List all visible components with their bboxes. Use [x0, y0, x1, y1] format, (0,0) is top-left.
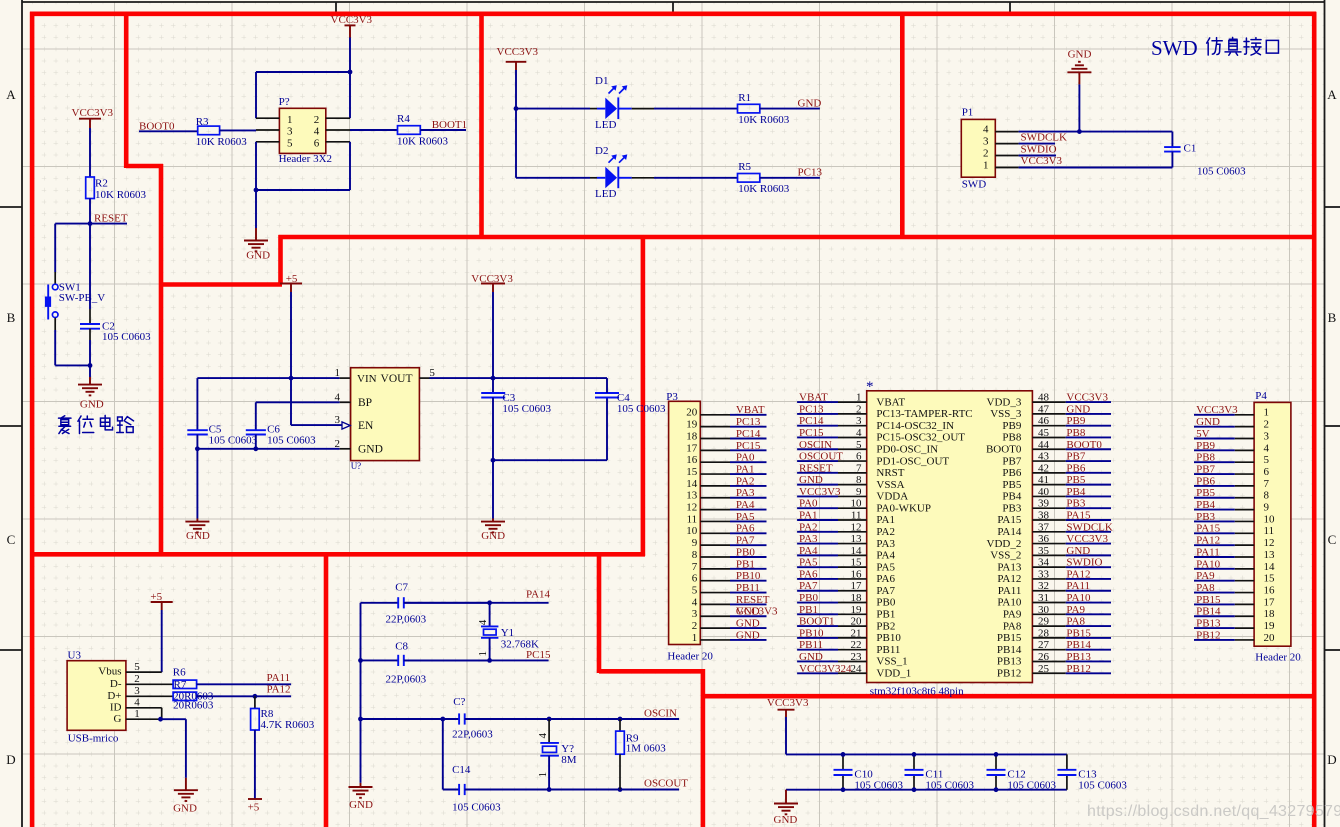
svg-text:22P,0603: 22P,0603 — [452, 729, 493, 741]
svg-text:VOUT: VOUT — [381, 373, 413, 385]
svg-text:4: 4 — [856, 427, 862, 439]
svg-text:VCC3V3: VCC3V3 — [1066, 392, 1108, 404]
svg-text:PB10: PB10 — [876, 632, 901, 644]
svg-text:*: * — [866, 379, 874, 395]
svg-text:R3: R3 — [196, 116, 209, 128]
svg-text:16: 16 — [1264, 584, 1276, 596]
svg-text:33: 33 — [1038, 568, 1050, 580]
svg-text:P1: P1 — [962, 107, 974, 119]
svg-text:22P,0603: 22P,0603 — [386, 613, 427, 625]
svg-text:30: 30 — [1038, 604, 1050, 616]
svg-text:R5: R5 — [738, 161, 751, 173]
svg-text:GND: GND — [481, 530, 505, 542]
svg-text:R1: R1 — [738, 92, 751, 104]
svg-text:2: 2 — [856, 403, 862, 415]
svg-text:PB9: PB9 — [1066, 415, 1085, 427]
svg-text:VCC3V3: VCC3V3 — [799, 486, 841, 498]
svg-text:22P,0603: 22P,0603 — [386, 673, 427, 685]
svg-text:PC13: PC13 — [798, 167, 823, 179]
svg-text:PA12: PA12 — [1066, 568, 1090, 580]
svg-text:EN: EN — [358, 420, 374, 432]
svg-text:VBAT: VBAT — [876, 396, 905, 408]
svg-text:40: 40 — [1038, 486, 1050, 498]
svg-text:14: 14 — [686, 478, 698, 490]
svg-text:27: 27 — [1038, 639, 1050, 651]
svg-text:R7: R7 — [174, 679, 187, 691]
svg-text:PB13: PB13 — [1196, 618, 1221, 630]
svg-text:PA1: PA1 — [876, 514, 895, 526]
svg-text:2: 2 — [692, 620, 698, 632]
svg-text:PA15: PA15 — [1196, 523, 1221, 535]
svg-text:A: A — [1327, 87, 1337, 102]
svg-text:10K R0603: 10K R0603 — [738, 114, 790, 126]
svg-text:47: 47 — [1038, 403, 1050, 415]
svg-text:8: 8 — [856, 474, 862, 486]
svg-text:3: 3 — [134, 685, 140, 697]
svg-text:PA0-WKUP: PA0-WKUP — [876, 502, 931, 514]
svg-text:38: 38 — [1038, 510, 1050, 522]
svg-text:PA3: PA3 — [736, 487, 755, 499]
svg-text:10K R0603: 10K R0603 — [397, 135, 449, 147]
svg-text:20: 20 — [686, 407, 698, 419]
svg-text:14: 14 — [851, 545, 863, 557]
svg-text:44: 44 — [1038, 439, 1050, 451]
svg-text:PB14: PB14 — [1066, 639, 1091, 651]
svg-text:SWDCLK: SWDCLK — [1066, 521, 1113, 533]
svg-text:PB3: PB3 — [1002, 502, 1021, 514]
svg-text:PB1: PB1 — [876, 609, 895, 621]
svg-text:VBAT: VBAT — [799, 392, 828, 404]
svg-text:P?: P? — [279, 96, 290, 108]
svg-text:PA15: PA15 — [1066, 510, 1091, 522]
svg-text:20: 20 — [1264, 632, 1276, 644]
svg-text:4: 4 — [134, 697, 140, 709]
svg-text:32: 32 — [1038, 580, 1049, 592]
svg-text:PA10: PA10 — [997, 597, 1022, 609]
svg-text:PB4: PB4 — [1196, 499, 1215, 511]
svg-text:19: 19 — [686, 419, 698, 431]
svg-text:SWDIO: SWDIO — [1021, 144, 1057, 156]
svg-text:R4: R4 — [397, 113, 410, 125]
svg-text:ID: ID — [110, 701, 122, 713]
svg-text:PC14: PC14 — [736, 428, 761, 440]
svg-text:7: 7 — [692, 561, 698, 573]
svg-text:6: 6 — [1264, 466, 1270, 478]
svg-text:VDD_2: VDD_2 — [987, 538, 1022, 550]
svg-text:20R0603: 20R0603 — [173, 699, 214, 711]
svg-text:35: 35 — [1038, 545, 1050, 557]
svg-text:GND: GND — [1066, 403, 1090, 415]
svg-text:12: 12 — [1264, 537, 1275, 549]
svg-text:5: 5 — [856, 439, 862, 451]
svg-text:SWDIO: SWDIO — [1066, 557, 1102, 569]
svg-text:1: 1 — [134, 708, 140, 720]
svg-text:PB4: PB4 — [1002, 491, 1021, 503]
svg-text:PA12: PA12 — [267, 683, 291, 695]
svg-text:D: D — [1327, 752, 1336, 767]
svg-text:PA7: PA7 — [799, 580, 818, 592]
svg-text:VDDA: VDDA — [876, 491, 908, 503]
svg-text:SWDCLK: SWDCLK — [1021, 132, 1068, 144]
svg-text:105 C0603: 105 C0603 — [502, 403, 551, 415]
svg-text:R2: R2 — [95, 178, 108, 190]
svg-text:PB6: PB6 — [1066, 462, 1085, 474]
svg-text:PA11: PA11 — [998, 585, 1022, 597]
svg-text:PC15: PC15 — [799, 427, 824, 439]
svg-text:C7: C7 — [395, 581, 408, 593]
svg-text:PA9: PA9 — [1196, 570, 1215, 582]
svg-text:C: C — [1328, 532, 1337, 547]
svg-text:2: 2 — [1264, 419, 1270, 431]
svg-text:BP: BP — [358, 397, 372, 409]
svg-text:105 C0603: 105 C0603 — [102, 331, 151, 343]
svg-text:VCC3V3: VCC3V3 — [1066, 533, 1108, 545]
svg-text:PB3: PB3 — [1066, 498, 1085, 510]
svg-text:VCC3V3: VCC3V3 — [767, 697, 809, 709]
svg-text:8: 8 — [692, 549, 698, 561]
svg-text:PB12: PB12 — [1066, 663, 1090, 675]
svg-text:105 C0603: 105 C0603 — [209, 435, 258, 447]
svg-text:34: 34 — [1038, 557, 1050, 569]
svg-text:GND: GND — [736, 629, 760, 641]
svg-text:PA0: PA0 — [799, 498, 818, 510]
svg-text:5V: 5V — [1196, 428, 1210, 440]
svg-text:105 C0603: 105 C0603 — [854, 779, 903, 791]
svg-text:GND: GND — [173, 803, 197, 815]
svg-text:45: 45 — [1038, 427, 1050, 439]
svg-text:PA10: PA10 — [1066, 592, 1091, 604]
svg-text:PB14: PB14 — [997, 644, 1022, 656]
svg-text:R6: R6 — [173, 667, 186, 679]
svg-text:VCC3V3: VCC3V3 — [1021, 155, 1063, 167]
svg-text:PA14: PA14 — [997, 526, 1022, 538]
svg-text:36: 36 — [1038, 533, 1050, 545]
svg-text:PB15: PB15 — [1196, 594, 1221, 606]
svg-text:R8: R8 — [261, 708, 274, 720]
svg-text:PA5: PA5 — [799, 557, 818, 569]
svg-text:1: 1 — [537, 772, 549, 778]
svg-text:PB10: PB10 — [799, 627, 824, 639]
svg-text:24: 24 — [851, 663, 863, 675]
svg-text:10K R0603: 10K R0603 — [95, 189, 147, 201]
svg-text:1: 1 — [287, 114, 293, 126]
svg-text:RESET: RESET — [736, 594, 770, 606]
svg-text:2: 2 — [314, 114, 320, 126]
svg-text:PD0-OSC_IN: PD0-OSC_IN — [876, 443, 938, 455]
svg-text:RESET: RESET — [94, 213, 128, 225]
svg-text:VDD_1: VDD_1 — [876, 667, 911, 679]
svg-text:PC13: PC13 — [736, 416, 761, 428]
svg-text:PB1: PB1 — [736, 558, 755, 570]
svg-text:105 C0603: 105 C0603 — [1078, 779, 1127, 791]
svg-text:B: B — [7, 310, 16, 325]
svg-text:PA4: PA4 — [799, 545, 818, 557]
svg-text:+5: +5 — [248, 802, 260, 814]
svg-text:PB8: PB8 — [1196, 452, 1215, 464]
svg-text:PB13: PB13 — [997, 656, 1022, 668]
svg-text:D1: D1 — [595, 75, 608, 87]
svg-text:3: 3 — [983, 136, 989, 148]
svg-text:PA12: PA12 — [997, 573, 1021, 585]
svg-text:OSCOUT: OSCOUT — [644, 777, 688, 789]
svg-text:10: 10 — [686, 525, 698, 537]
svg-text:C8: C8 — [395, 640, 408, 652]
svg-text:GND: GND — [349, 799, 373, 811]
svg-text:PA0: PA0 — [736, 452, 755, 464]
svg-text:PB5: PB5 — [1066, 474, 1085, 486]
svg-text:PC14-OSC32_IN: PC14-OSC32_IN — [876, 420, 954, 432]
svg-text:6: 6 — [314, 137, 320, 149]
svg-text:11: 11 — [851, 510, 862, 522]
svg-text:PB7: PB7 — [1196, 463, 1215, 475]
svg-text:PA2: PA2 — [736, 475, 755, 487]
svg-text:8M: 8M — [561, 754, 577, 766]
svg-text:OSCOUT: OSCOUT — [799, 451, 843, 463]
svg-text:28: 28 — [1038, 627, 1050, 639]
svg-text:18: 18 — [851, 592, 863, 604]
svg-text:PB11: PB11 — [736, 582, 760, 594]
svg-text:9: 9 — [856, 486, 862, 498]
svg-text:10K R0603: 10K R0603 — [196, 136, 248, 148]
svg-text:18: 18 — [1264, 608, 1276, 620]
svg-text:105 C0603: 105 C0603 — [925, 779, 974, 791]
svg-text:Vbus: Vbus — [98, 666, 121, 678]
svg-text:46: 46 — [1038, 415, 1050, 427]
svg-text:3: 3 — [692, 608, 698, 620]
svg-text:19: 19 — [1264, 620, 1276, 632]
svg-text:GND: GND — [798, 97, 822, 109]
svg-text:5: 5 — [134, 661, 140, 673]
svg-text:41: 41 — [1038, 474, 1049, 486]
svg-text:B: B — [1328, 310, 1337, 325]
svg-text:LED: LED — [595, 188, 616, 200]
svg-text:PA8: PA8 — [1066, 616, 1085, 628]
svg-text:PA6: PA6 — [799, 568, 818, 580]
svg-text:G: G — [114, 713, 122, 725]
svg-text:105 C0603: 105 C0603 — [617, 403, 666, 415]
svg-text:15: 15 — [851, 557, 863, 569]
svg-text:17: 17 — [686, 442, 698, 454]
svg-text:26: 26 — [1038, 651, 1050, 663]
svg-text:16: 16 — [851, 568, 863, 580]
svg-text:GND: GND — [186, 530, 210, 542]
svg-text:C: C — [7, 532, 16, 547]
svg-text:14: 14 — [1264, 561, 1276, 573]
svg-text:PA10: PA10 — [1196, 558, 1221, 570]
svg-text:P4: P4 — [1255, 390, 1267, 402]
svg-text:48: 48 — [1038, 392, 1050, 404]
svg-text:PA4: PA4 — [876, 550, 895, 562]
svg-text:42: 42 — [1038, 462, 1049, 474]
svg-text:15: 15 — [1264, 573, 1276, 585]
svg-text:105 C0603: 105 C0603 — [1197, 166, 1246, 178]
svg-text:U3: U3 — [68, 650, 82, 662]
svg-text:PA5: PA5 — [736, 511, 755, 523]
svg-text:SWD: SWD — [962, 178, 987, 190]
svg-text:2: 2 — [134, 673, 140, 685]
svg-text:10K R0603: 10K R0603 — [738, 183, 790, 195]
svg-text:USB-mrico: USB-mrico — [68, 732, 119, 744]
svg-text:PA13: PA13 — [997, 561, 1022, 573]
svg-text:PB7: PB7 — [1066, 451, 1085, 463]
svg-text:PB12: PB12 — [1196, 629, 1220, 641]
svg-text:BOOT1: BOOT1 — [432, 119, 467, 131]
svg-text:https://blog.csdn.net/qq_43279: https://blog.csdn.net/qq_43279579 — [1087, 803, 1340, 820]
svg-text:GND: GND — [799, 651, 823, 663]
svg-text:39: 39 — [1038, 498, 1050, 510]
svg-text:12: 12 — [851, 521, 862, 533]
svg-text:18: 18 — [686, 430, 698, 442]
svg-text:VBAT: VBAT — [736, 404, 765, 416]
svg-text:4: 4 — [1264, 442, 1270, 454]
svg-text:C4: C4 — [617, 392, 630, 404]
svg-text:GND: GND — [799, 474, 823, 486]
svg-text:PB15: PB15 — [997, 632, 1022, 644]
svg-text:105 C0603: 105 C0603 — [267, 435, 316, 447]
svg-text:GND: GND — [736, 618, 760, 630]
svg-text:PB5: PB5 — [1196, 487, 1215, 499]
svg-text:PA7: PA7 — [736, 535, 755, 547]
svg-text:PA8: PA8 — [1003, 620, 1022, 632]
svg-text:VIN: VIN — [357, 373, 377, 385]
svg-text:19: 19 — [851, 604, 863, 616]
svg-text:VDD_3: VDD_3 — [987, 396, 1022, 408]
svg-text:PB15: PB15 — [1066, 627, 1091, 639]
svg-text:PD1-OSC_OUT: PD1-OSC_OUT — [876, 455, 949, 467]
svg-text:GND: GND — [1066, 545, 1090, 557]
svg-text:PB0: PB0 — [736, 546, 755, 558]
svg-text:PA12: PA12 — [1196, 535, 1220, 547]
svg-text:GND: GND — [80, 398, 104, 410]
svg-text:8: 8 — [1264, 490, 1270, 502]
svg-text:VCC3V3: VCC3V3 — [331, 14, 373, 26]
svg-text:C1: C1 — [1184, 142, 1197, 154]
svg-text:Y1: Y1 — [501, 627, 514, 639]
svg-text:stm32f103c8t6 48pin: stm32f103c8t6 48pin — [870, 686, 964, 698]
svg-text:D2: D2 — [595, 145, 608, 157]
svg-text:6: 6 — [692, 573, 698, 585]
svg-text:12: 12 — [686, 502, 697, 514]
svg-text:PA6: PA6 — [736, 523, 755, 535]
svg-text:RESET: RESET — [799, 462, 833, 474]
svg-text:U?: U? — [351, 461, 362, 471]
svg-text:10: 10 — [1264, 513, 1276, 525]
svg-text:PB3: PB3 — [1196, 511, 1215, 523]
svg-text:BOOT0: BOOT0 — [986, 443, 1022, 455]
svg-text:PB4: PB4 — [1066, 486, 1085, 498]
svg-text:43: 43 — [1038, 451, 1050, 463]
svg-text:PB1: PB1 — [799, 604, 818, 616]
svg-text:PA11: PA11 — [1066, 580, 1090, 592]
svg-text:PB8: PB8 — [1066, 427, 1085, 439]
svg-text:SWD: SWD — [1151, 36, 1198, 60]
svg-text:PB12: PB12 — [997, 667, 1021, 679]
svg-text:VCC3V3: VCC3V3 — [72, 107, 114, 119]
svg-text:C?: C? — [453, 696, 465, 708]
svg-text:11: 11 — [687, 513, 698, 525]
svg-text:1: 1 — [692, 632, 698, 644]
svg-text:Header 20: Header 20 — [1255, 652, 1301, 664]
svg-text:4: 4 — [983, 124, 989, 136]
svg-text:OSCIN: OSCIN — [644, 708, 677, 720]
svg-text:PA9: PA9 — [1066, 604, 1085, 616]
svg-text:PA4: PA4 — [736, 499, 755, 511]
svg-text:10: 10 — [851, 498, 863, 510]
svg-text:PA5: PA5 — [876, 561, 895, 573]
svg-text:PA3: PA3 — [799, 533, 818, 545]
svg-text:PA7: PA7 — [876, 585, 895, 597]
svg-text:1: 1 — [1264, 407, 1270, 419]
svg-text:LED: LED — [595, 119, 616, 131]
svg-text:2: 2 — [983, 148, 989, 160]
svg-text:PC15: PC15 — [526, 649, 551, 661]
svg-text:PA3: PA3 — [876, 538, 895, 550]
svg-text:PA9: PA9 — [1003, 609, 1022, 621]
svg-text:16: 16 — [686, 454, 698, 466]
svg-text:PB11: PB11 — [799, 639, 823, 651]
svg-text:1: 1 — [856, 392, 862, 404]
svg-text:BOOT0: BOOT0 — [1066, 439, 1102, 451]
svg-text:PA1: PA1 — [799, 510, 818, 522]
svg-text:PB8: PB8 — [1002, 432, 1021, 444]
svg-text:21: 21 — [851, 627, 862, 639]
svg-text:23: 23 — [851, 651, 863, 663]
svg-text:GND: GND — [246, 250, 270, 262]
svg-text:9: 9 — [692, 537, 698, 549]
svg-text:VCC3V3: VCC3V3 — [1196, 404, 1238, 416]
svg-text:VSSA: VSSA — [876, 479, 904, 491]
svg-text:PB11: PB11 — [876, 644, 900, 656]
svg-text:15: 15 — [686, 466, 698, 478]
svg-text:VSS_3: VSS_3 — [990, 408, 1022, 420]
svg-text:GND: GND — [1196, 416, 1220, 428]
svg-text:PC15: PC15 — [736, 440, 761, 452]
svg-text:C14: C14 — [452, 764, 471, 776]
svg-text:PB0: PB0 — [799, 592, 818, 604]
svg-text:105 C0603: 105 C0603 — [452, 801, 501, 813]
svg-text:31: 31 — [1038, 592, 1049, 604]
svg-text:VSS_2: VSS_2 — [990, 550, 1021, 562]
svg-text:11: 11 — [1264, 525, 1275, 537]
svg-text:D-: D- — [110, 678, 122, 690]
svg-text:1: 1 — [335, 367, 341, 379]
svg-text:5: 5 — [692, 584, 698, 596]
svg-text:PA6: PA6 — [876, 573, 895, 585]
svg-text:PB10: PB10 — [736, 570, 761, 582]
svg-text:PB5: PB5 — [1002, 479, 1021, 491]
svg-text:BOOT1: BOOT1 — [799, 616, 834, 628]
svg-text:PB9: PB9 — [1196, 440, 1215, 452]
svg-text:PB13: PB13 — [1066, 651, 1091, 663]
svg-text:37: 37 — [1038, 521, 1050, 533]
svg-text:A: A — [6, 87, 16, 102]
svg-text:GND: GND — [358, 444, 383, 456]
svg-text:VCC3V324: VCC3V324 — [799, 663, 852, 675]
svg-text:VSS_1: VSS_1 — [876, 656, 907, 668]
svg-text:PB0: PB0 — [876, 597, 895, 609]
svg-text:OSCIN: OSCIN — [799, 439, 832, 451]
svg-text:SW-PB_V: SW-PB_V — [59, 292, 106, 304]
svg-text:4: 4 — [477, 619, 489, 625]
svg-text:PA8: PA8 — [1196, 582, 1215, 594]
svg-text:PB7: PB7 — [1002, 455, 1021, 467]
svg-text:3: 3 — [287, 126, 293, 138]
svg-text:9: 9 — [1264, 502, 1270, 514]
svg-text:6: 6 — [856, 451, 862, 463]
svg-text:13: 13 — [1264, 549, 1276, 561]
svg-text:GND: GND — [774, 814, 798, 826]
svg-text:29: 29 — [1038, 616, 1050, 628]
